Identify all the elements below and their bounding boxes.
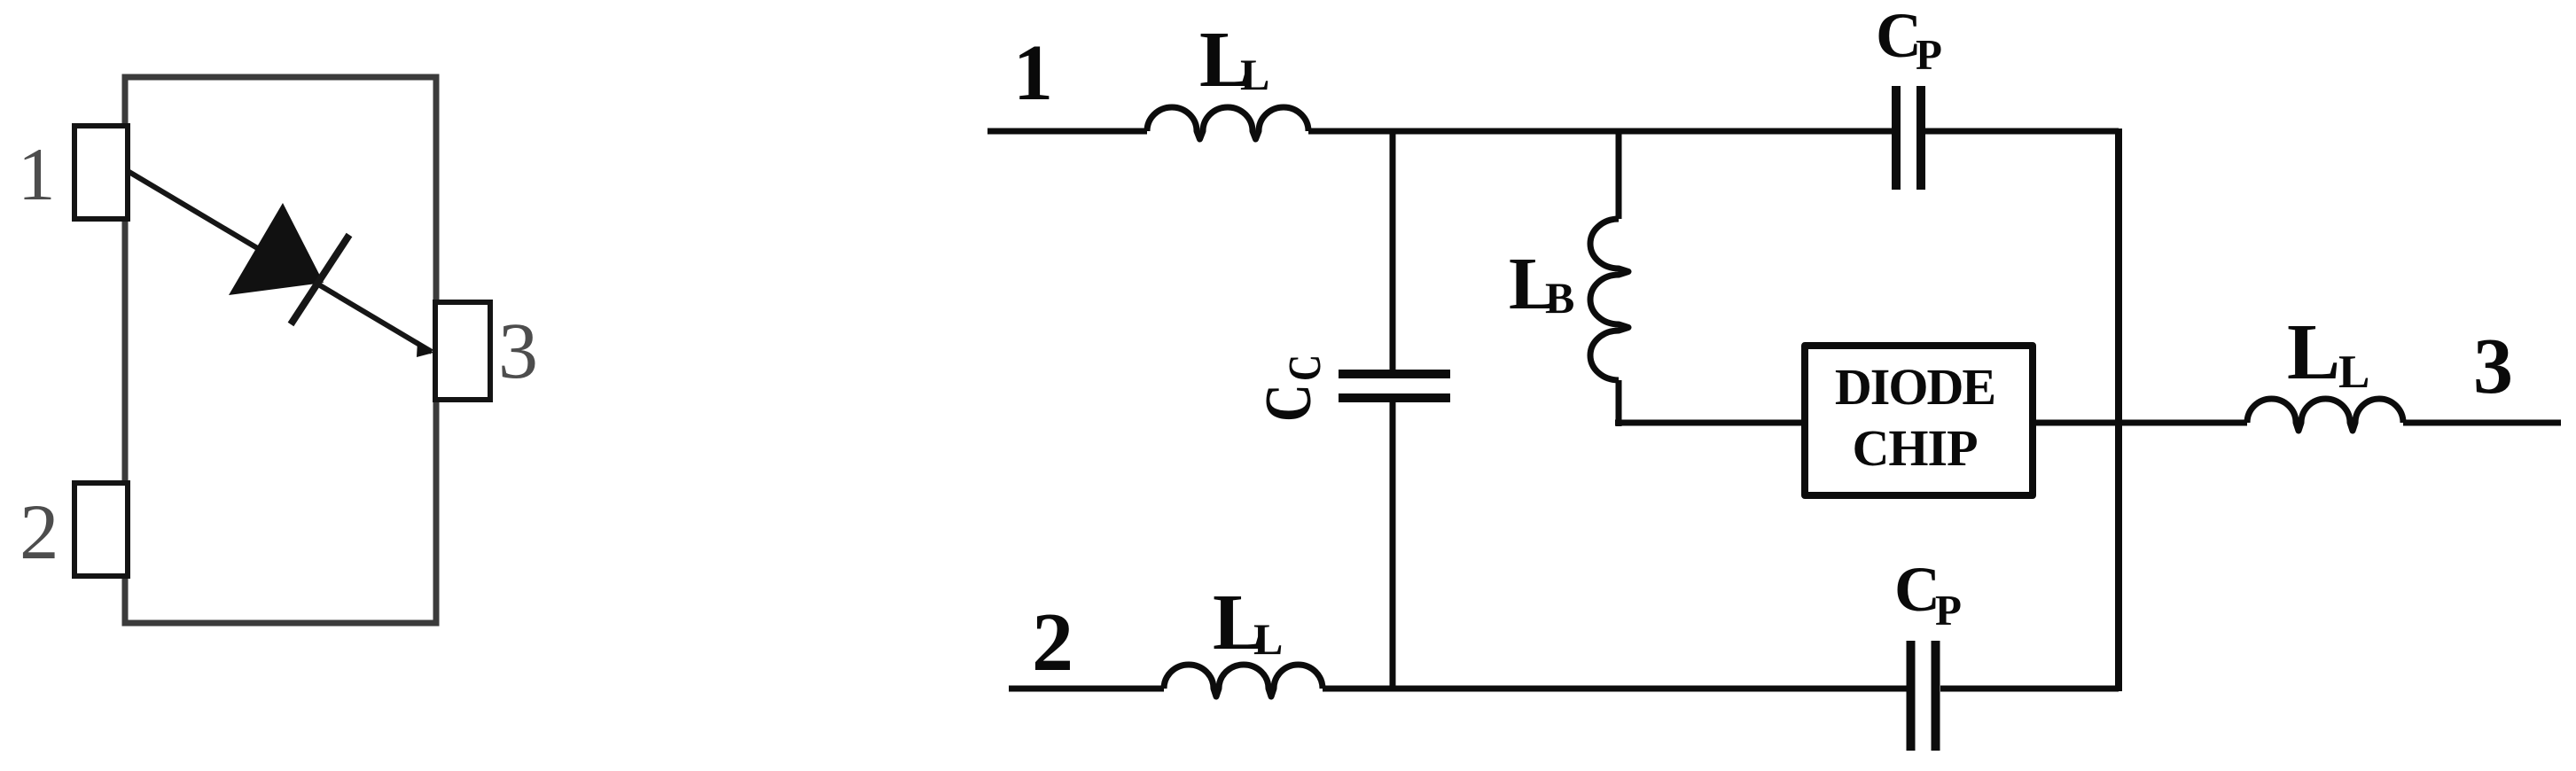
svg-text:2: 2: [1032, 596, 1073, 689]
svg-text:1: 1: [1013, 29, 1053, 117]
svg-text:DIODE: DIODE: [1835, 358, 1994, 416]
svg-text:LL: LL: [2287, 308, 2369, 398]
svg-text:CP: CP: [1894, 554, 1962, 635]
svg-text:CC: CC: [1253, 354, 1331, 422]
svg-text:LB: LB: [1509, 243, 1574, 325]
svg-text:LL: LL: [1199, 16, 1269, 104]
svg-text:LL: LL: [1213, 579, 1283, 666]
svg-text:2: 2: [20, 489, 59, 576]
svg-text:3: 3: [2473, 323, 2513, 410]
svg-text:CP: CP: [1876, 0, 1942, 79]
svg-text:3: 3: [498, 308, 538, 395]
svg-text:CHIP: CHIP: [1853, 419, 1978, 477]
svg-text:1: 1: [18, 133, 56, 216]
